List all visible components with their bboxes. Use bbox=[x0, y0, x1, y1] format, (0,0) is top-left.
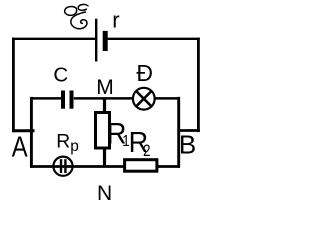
battery plate long (EMF source) bbox=[95, 19, 97, 62]
battery plate short thick bbox=[103, 31, 108, 51]
svg-text:p: p bbox=[70, 138, 79, 155]
svg-text:M: M bbox=[96, 76, 114, 99]
svg-text:N: N bbox=[97, 182, 112, 205]
capacitor C left plate bbox=[61, 91, 65, 109]
resistor R2 box bbox=[125, 160, 157, 172]
wire inner top: A corner to capacitor bbox=[30, 97, 61, 100]
svg-text:r: r bbox=[112, 7, 119, 32]
wire middle branch M to N bbox=[103, 98, 106, 167]
wire inner left vertical (A branch) bbox=[30, 97, 33, 168]
svg-text:Đ: Đ bbox=[136, 60, 153, 86]
svg-text:2: 2 bbox=[143, 142, 151, 161]
wire inner bottom N branch bbox=[30, 165, 180, 168]
wire inner top: capacitor to lamp to B corner bbox=[74, 97, 180, 100]
resistor R1 box bbox=[96, 113, 110, 149]
EMF script E symbol bbox=[65, 4, 88, 28]
rheostat Rp bar 2 bbox=[64, 159, 66, 173]
wire top right (battery loop) bbox=[105, 38, 200, 40]
svg-text:C: C bbox=[53, 64, 68, 87]
svg-text:R: R bbox=[56, 131, 70, 152]
lamp Đ circle bbox=[133, 88, 155, 110]
wire left outer vertical bbox=[12, 38, 15, 133]
lamp X diagonal 1 bbox=[136, 91, 151, 106]
wire left stub to node A bbox=[12, 129, 35, 132]
svg-text:B: B bbox=[179, 130, 196, 160]
rheostat Rp circle bbox=[53, 157, 72, 176]
wire right outer vertical bbox=[197, 38, 200, 133]
lamp X diagonal 2 bbox=[136, 91, 151, 106]
wire inner right vertical (B branch) bbox=[177, 97, 180, 168]
capacitor C right plate bbox=[70, 91, 74, 109]
wire right stub to node B bbox=[178, 129, 200, 132]
svg-text:A: A bbox=[12, 130, 28, 163]
rheostat Rp bar 1 bbox=[60, 159, 62, 173]
wire top left (battery loop) bbox=[12, 38, 96, 40]
